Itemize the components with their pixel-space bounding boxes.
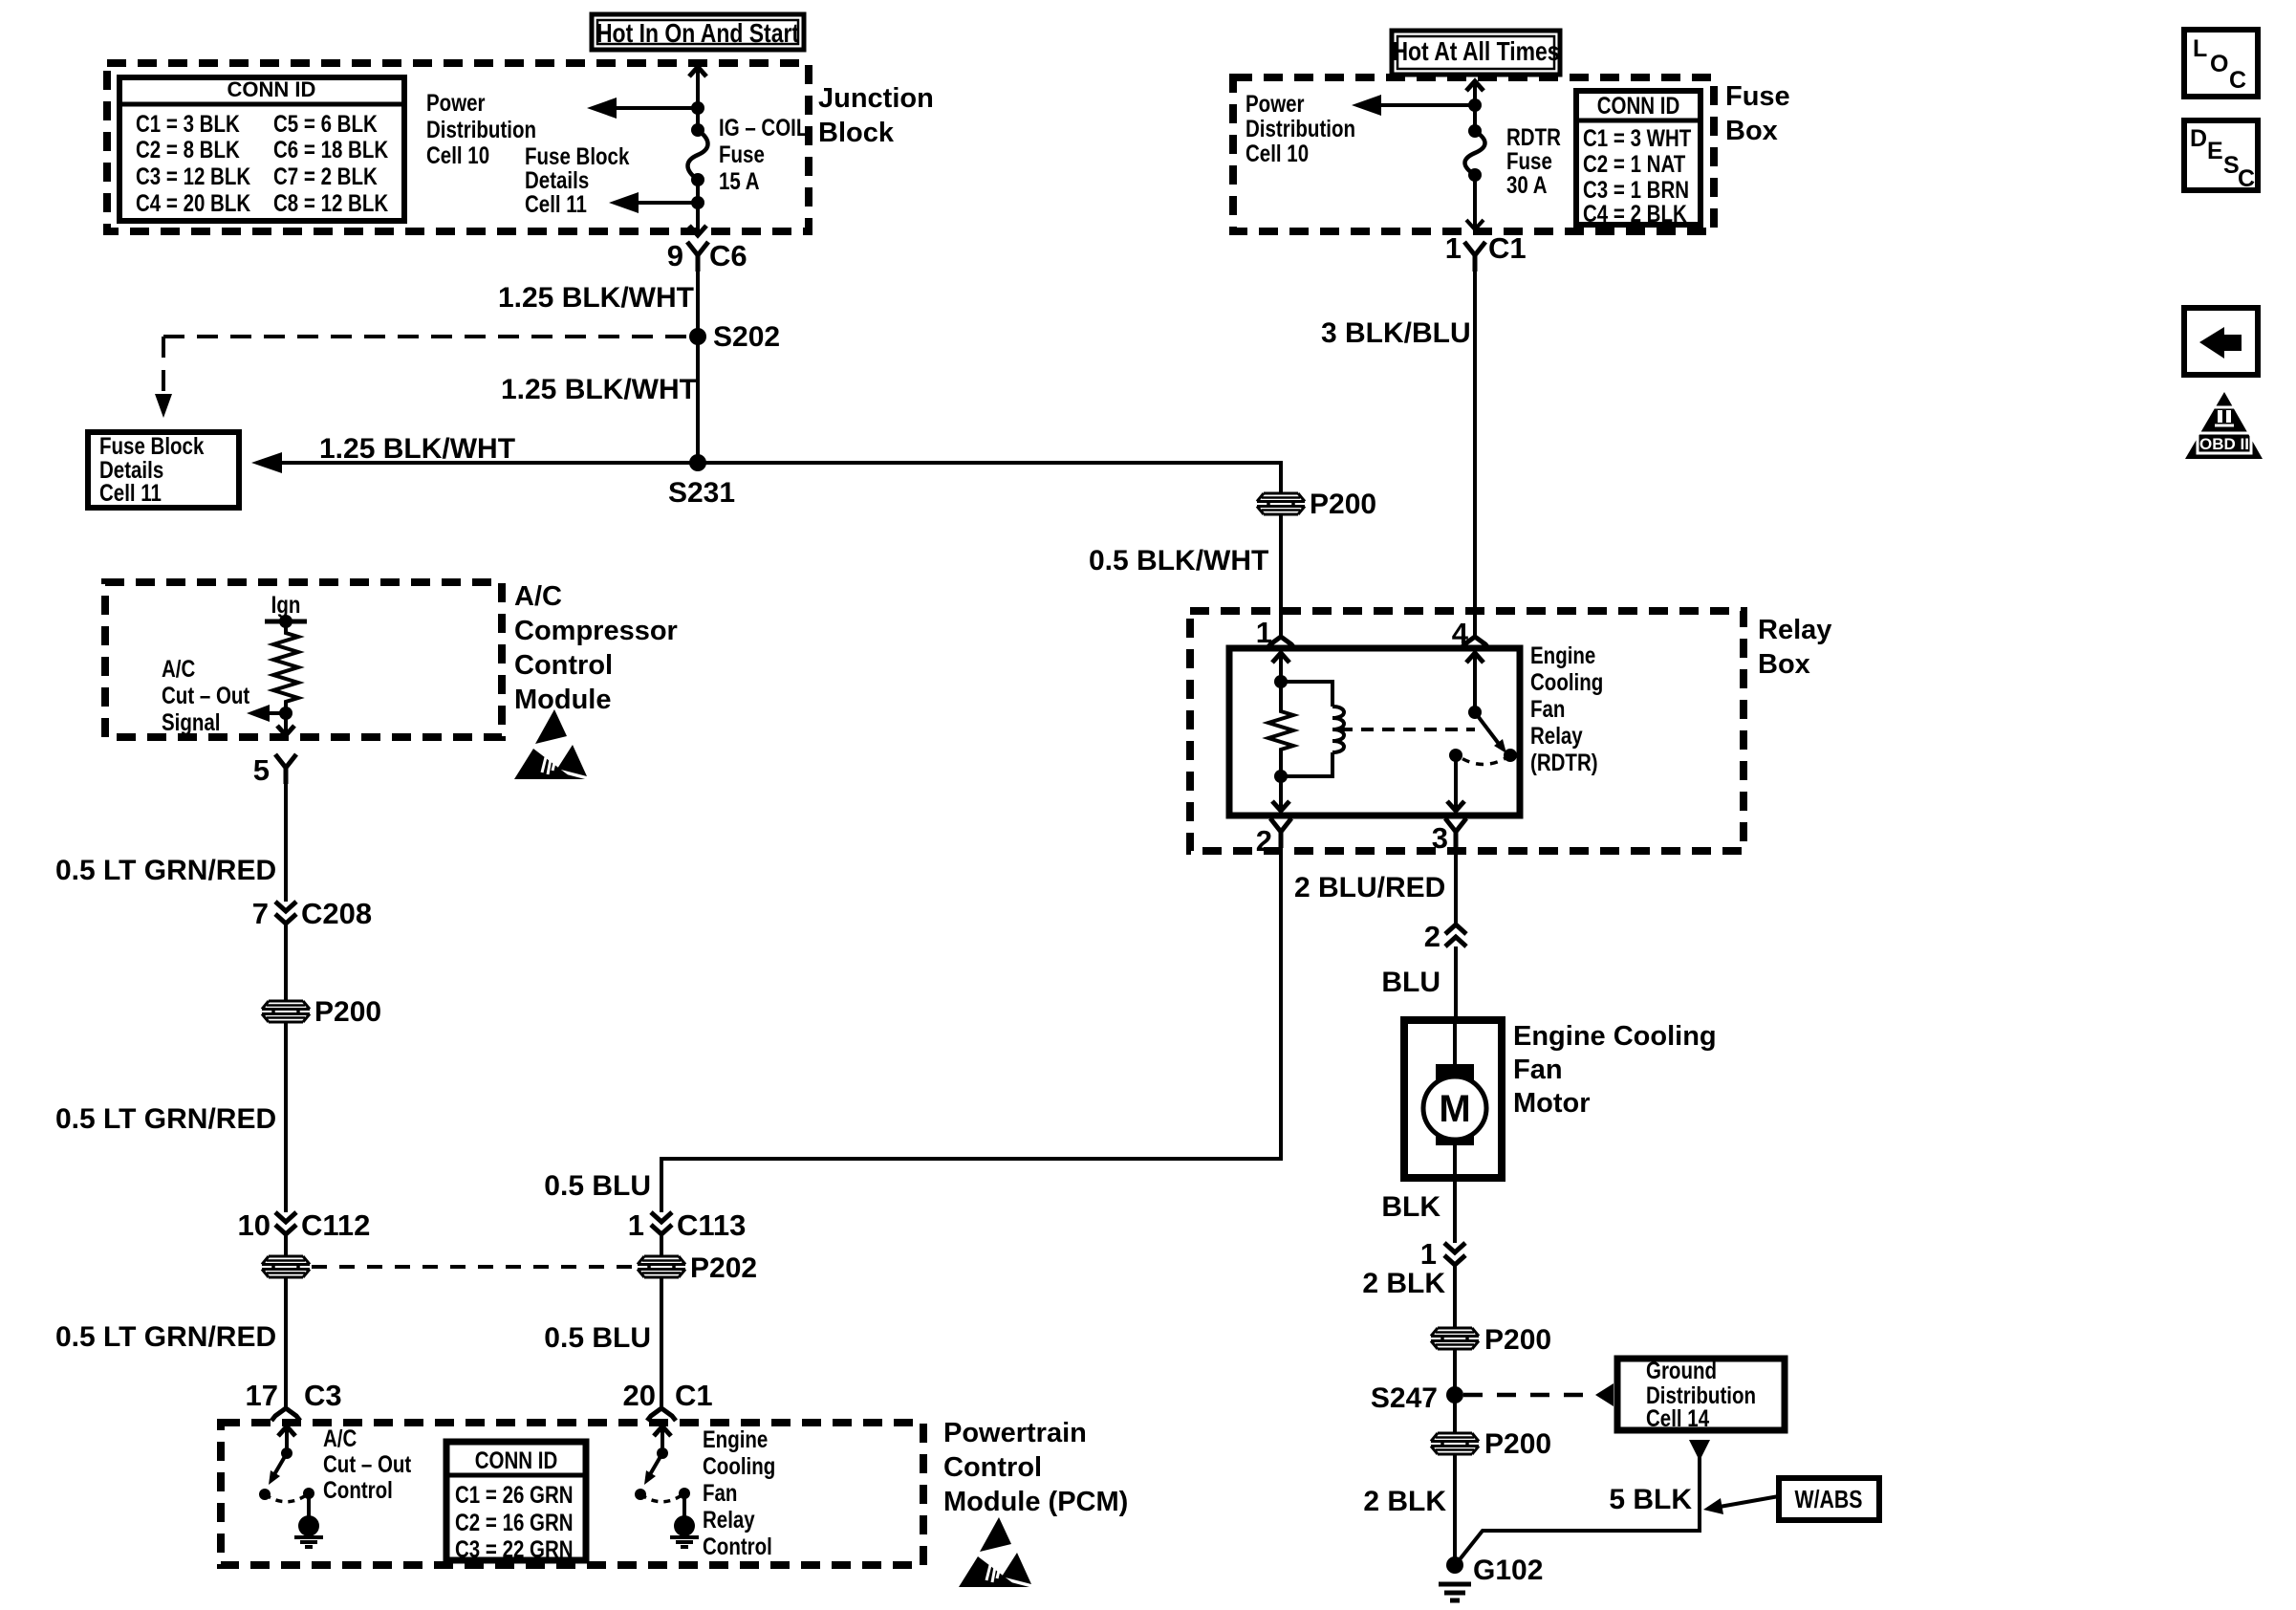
wire motor to ground chain <box>1453 1178 1457 1327</box>
svg-text:2: 2 <box>1424 920 1440 953</box>
svg-text:C2 = 8 BLK: C2 = 8 BLK <box>136 136 240 163</box>
svg-text:0.5 LT GRN/RED: 0.5 LT GRN/RED <box>55 1103 276 1135</box>
svg-text:10: 10 <box>238 1208 271 1242</box>
powertrain control module dashed box <box>221 1423 923 1565</box>
svg-text:Fan: Fan <box>1513 1055 1563 1085</box>
svg-text:Cell 10: Cell 10 <box>1245 140 1309 166</box>
relay pin 4 internal arrow <box>1466 653 1484 719</box>
wire S231 to P200 branch (arrow to fuse block details) <box>251 452 1281 493</box>
switch a/c cut-out control <box>259 1426 323 1547</box>
wire S247 to P200 <box>1453 1395 1457 1433</box>
wire P200 to S247 <box>1453 1349 1457 1395</box>
svg-text:30 A: 30 A <box>1506 171 1548 198</box>
svg-text:S247: S247 <box>1371 1382 1438 1414</box>
relay coil winding <box>1281 682 1344 776</box>
svg-text:Ground: Ground <box>1646 1357 1717 1383</box>
icon DESC box <box>2184 120 2258 192</box>
svg-text:Powertrain: Powertrain <box>943 1418 1087 1448</box>
connector C1 (PCM) <box>623 1379 713 1421</box>
connector P202 <box>638 1252 757 1284</box>
label Fuse Box <box>1725 81 1790 146</box>
svg-text:17: 17 <box>246 1379 278 1412</box>
svg-text:Relay: Relay <box>703 1506 755 1533</box>
svg-text:Control: Control <box>943 1452 1042 1483</box>
svg-text:Control: Control <box>703 1533 772 1559</box>
svg-text:Relay: Relay <box>1530 722 1583 749</box>
esd warning symbol (PCM) <box>959 1517 1031 1587</box>
wire power distribution branch arrow (fuse box) <box>1352 95 1475 116</box>
wire junction block output (down arrow) <box>689 180 706 235</box>
svg-text:15 A: 15 A <box>719 167 760 194</box>
connector P200 (motor ground upper) <box>1431 1324 1551 1356</box>
svg-text:Fuse: Fuse <box>719 141 765 167</box>
svg-text:Cooling: Cooling <box>1530 668 1603 695</box>
svg-text:C4 = 20 BLK: C4 = 20 BLK <box>136 189 251 216</box>
svg-text:C7 = 2 BLK: C7 = 2 BLK <box>273 163 378 189</box>
ground G102 <box>1439 1555 1543 1600</box>
svg-text:Engine: Engine <box>703 1425 768 1452</box>
relay pin 3 internal arrow <box>1447 749 1464 811</box>
wire 3 BLK/BLU <box>1473 272 1477 636</box>
svg-text:0.5 BLK/WHT: 0.5 BLK/WHT <box>1089 545 1268 577</box>
svg-text:Box: Box <box>1725 116 1778 146</box>
svg-text:Cell 11: Cell 11 <box>525 190 587 217</box>
svg-text:Cooling: Cooling <box>703 1452 775 1479</box>
svg-text:5: 5 <box>253 753 270 787</box>
label Hot In On And Start <box>592 14 804 50</box>
svg-text:C1: C1 <box>1488 231 1527 265</box>
svg-text:C208: C208 <box>301 897 372 930</box>
svg-text:S231: S231 <box>668 477 735 509</box>
svg-text:Hot At All Times: Hot At All Times <box>1392 37 1559 67</box>
svg-text:S202: S202 <box>713 321 780 353</box>
wire dashed C112 to P202 <box>312 1265 636 1269</box>
connector relay pin 4 <box>1452 617 1489 650</box>
node junction (fuse box branch) <box>1468 98 1482 112</box>
svg-text:Cell 10: Cell 10 <box>426 141 489 168</box>
svg-text:Fan: Fan <box>703 1479 737 1506</box>
svg-text:Cell 14: Cell 14 <box>1646 1404 1709 1431</box>
svg-text:Module (PCM): Module (PCM) <box>943 1487 1128 1517</box>
wire P200 to G102 <box>1453 1454 1457 1565</box>
svg-text:C6 = 18 BLK: C6 = 18 BLK <box>273 136 389 163</box>
svg-text:Power: Power <box>426 89 486 116</box>
svg-text:20: 20 <box>623 1379 656 1412</box>
node S202 <box>689 321 780 353</box>
svg-text:CONN ID: CONN ID <box>475 1447 558 1473</box>
svg-text:Distribution: Distribution <box>426 116 536 142</box>
svg-text:3: 3 <box>1432 821 1448 855</box>
svg-text:0.5 LT GRN/RED: 0.5 LT GRN/RED <box>55 855 276 886</box>
svg-text:1.25 BLK/WHT: 1.25 BLK/WHT <box>501 374 697 405</box>
svg-text:D: D <box>2190 125 2207 152</box>
svg-text:A/C: A/C <box>162 655 195 682</box>
svg-text:P202: P202 <box>690 1252 757 1284</box>
svg-text:Cut – Out: Cut – Out <box>162 682 250 708</box>
svg-text:C1 = 3 WHT: C1 = 3 WHT <box>1583 124 1691 151</box>
svg-text:C6: C6 <box>709 239 747 272</box>
svg-text:IG – COIL: IG – COIL <box>719 114 808 141</box>
fuse IG-COIL 15 A <box>688 123 708 186</box>
label 9 C6 <box>667 239 747 272</box>
wire junction block feed (up arrow) <box>689 67 706 108</box>
connector C1 (Y, fuse box) <box>1464 242 1485 272</box>
wire P200 to C112 <box>284 1022 288 1256</box>
svg-text:Relay: Relay <box>1758 615 1831 645</box>
wire C6 to S202 <box>696 272 700 337</box>
svg-text:BLU: BLU <box>1381 967 1440 998</box>
connector C6 (Y) <box>687 242 708 272</box>
connector P200 (upper) <box>1257 489 1376 520</box>
svg-text:2 BLU/RED: 2 BLU/RED <box>1294 872 1445 903</box>
svg-text:1.25 BLK/WHT: 1.25 BLK/WHT <box>319 433 515 465</box>
connector P200 (a/c chain) <box>262 996 381 1028</box>
svg-text:3 BLK/BLU: 3 BLK/BLU <box>1321 317 1471 349</box>
svg-text:Module: Module <box>514 685 612 715</box>
svg-text:C2 = 16 GRN: C2 = 16 GRN <box>455 1509 574 1535</box>
wire W/ABS arrow <box>1703 1496 1779 1514</box>
svg-text:A/C: A/C <box>323 1425 357 1451</box>
svg-text:P200: P200 <box>1484 1428 1551 1460</box>
node junction at details branch <box>691 196 704 209</box>
svg-text:C113: C113 <box>677 1208 746 1242</box>
conn id table (fuse box) <box>1576 91 1700 227</box>
svg-text:CONN ID: CONN ID <box>1597 92 1680 119</box>
wire S202 to S231 <box>696 337 700 463</box>
svg-text:9: 9 <box>667 239 683 272</box>
wire dashed crossover to fuse block details <box>155 337 687 418</box>
connector P200 (motor ground lower) <box>1431 1428 1551 1460</box>
connector 5 (Y, a/c module) <box>253 753 296 787</box>
junction block dashed box <box>107 63 809 231</box>
node Ign bar <box>265 615 307 628</box>
svg-text:P200: P200 <box>1484 1324 1551 1356</box>
relay actuate dashed link <box>1340 728 1475 731</box>
svg-text:(RDTR): (RDTR) <box>1530 749 1598 775</box>
svg-text:Box: Box <box>1758 649 1810 680</box>
svg-text:Fuse: Fuse <box>1725 81 1790 112</box>
svg-text:Control: Control <box>323 1476 393 1503</box>
svg-text:Hot In On And Start: Hot In On And Start <box>596 19 799 49</box>
box Ground Distribution Cell 14 <box>1617 1357 1785 1431</box>
svg-text:Ign: Ign <box>271 591 301 618</box>
icon OBD II triangle <box>2185 392 2263 459</box>
wire C112 to C3 <box>284 1277 288 1407</box>
wire P200 to relay pin 1 <box>1279 514 1283 636</box>
connector C208 <box>252 897 372 930</box>
svg-text:CONN ID: CONN ID <box>227 77 316 101</box>
svg-text:Cut – Out: Cut – Out <box>323 1450 412 1477</box>
connector relay pin 2 <box>1256 818 1291 858</box>
svg-text:C1: C1 <box>675 1379 713 1412</box>
switch engine cooling fan relay control <box>635 1426 699 1547</box>
svg-text:2 BLK: 2 BLK <box>1363 1486 1446 1517</box>
wire power distribution branch arrow <box>587 98 698 119</box>
relay pin 1 internal arrow <box>1272 653 1289 688</box>
box Fuse Block Details Cell 11 <box>88 432 239 508</box>
box W/ABS <box>1779 1478 1879 1520</box>
svg-text:2: 2 <box>1256 824 1272 858</box>
svg-text:C1 = 26 GRN: C1 = 26 GRN <box>455 1481 574 1508</box>
svg-text:C: C <box>2229 67 2246 94</box>
svg-text:OBD II: OBD II <box>2199 435 2249 453</box>
svg-text:1.25 BLK/WHT: 1.25 BLK/WHT <box>498 282 694 314</box>
svg-text:1: 1 <box>628 1208 644 1242</box>
svg-text:Power: Power <box>1245 90 1305 117</box>
wire a/c cut-out signal arrow <box>247 705 292 722</box>
svg-text:Distribution: Distribution <box>1245 115 1355 141</box>
label A/C Cut-Out Signal <box>162 655 250 735</box>
svg-text:P200: P200 <box>1310 489 1376 520</box>
svg-text:C2 = 1 NAT: C2 = 1 NAT <box>1583 150 1685 177</box>
label IG-COIL Fuse 15 A <box>719 114 808 194</box>
wire relay pin 2 to C113 (0.5 BLU run) <box>661 848 1281 1256</box>
svg-text:Engine: Engine <box>1530 642 1595 668</box>
svg-text:P200: P200 <box>314 996 381 1028</box>
svg-text:Motor: Motor <box>1513 1088 1591 1119</box>
svg-text:5 BLK: 5 BLK <box>1609 1484 1692 1515</box>
relay box dashed box <box>1190 611 1744 851</box>
connector 2 (fan motor harness) <box>1424 920 1466 953</box>
label Power Distribution Cell 10 (junction block) <box>426 89 536 168</box>
svg-text:Cell 11: Cell 11 <box>99 479 162 506</box>
svg-text:7: 7 <box>252 897 269 930</box>
wire dashed to ground distribution <box>1463 1383 1614 1406</box>
svg-text:1: 1 <box>1445 231 1462 265</box>
label RDTR Fuse 30 A <box>1506 123 1561 198</box>
wire into fuse <box>696 108 700 130</box>
svg-text:C: C <box>2238 165 2255 192</box>
svg-text:0.5 BLU: 0.5 BLU <box>544 1322 651 1354</box>
a/c compressor control module dashed box <box>105 582 502 737</box>
svg-text:G102: G102 <box>1473 1555 1543 1586</box>
svg-text:Signal: Signal <box>162 708 221 735</box>
label Hot At All Times <box>1392 31 1560 75</box>
connector C113 <box>628 1208 747 1242</box>
svg-text:E: E <box>2207 138 2223 164</box>
connector relay pin 3 <box>1432 818 1466 855</box>
conn id table (PCM) <box>446 1442 586 1562</box>
wire a/c module output (down arrow) <box>277 713 294 735</box>
label Engine Cooling Fan Motor <box>1513 1021 1717 1119</box>
label Engine Cooling Fan Relay Control <box>703 1425 775 1559</box>
svg-text:BLK: BLK <box>1381 1191 1440 1223</box>
svg-text:2 BLK: 2 BLK <box>1362 1268 1445 1299</box>
node S247 <box>1371 1382 1463 1414</box>
svg-text:1: 1 <box>1256 616 1272 649</box>
svg-text:W/ABS: W/ABS <box>1794 1486 1862 1514</box>
connector C112 <box>238 1208 371 1242</box>
label Power Distribution Cell 10 (fuse box) <box>1245 90 1355 166</box>
label Fuse Block Details Cell 11 (junction block) <box>525 142 630 217</box>
icon back-arrow box <box>2184 308 2258 375</box>
wire P202 to C1 <box>660 1277 663 1407</box>
svg-text:Junction: Junction <box>818 83 934 114</box>
svg-text:C8 = 12 BLK: C8 = 12 BLK <box>273 189 389 216</box>
svg-text:L: L <box>2193 35 2207 62</box>
svg-text:O: O <box>2210 51 2228 77</box>
label A/C Compressor Control Module <box>514 581 678 715</box>
label 1 C1 <box>1445 231 1527 265</box>
connector C112 pass-through <box>262 1256 310 1277</box>
svg-text:Block: Block <box>818 118 895 148</box>
svg-text:C3: C3 <box>304 1379 342 1412</box>
svg-text:C4 = 2 BLK: C4 = 2 BLK <box>1583 200 1687 227</box>
relay RDTR body <box>1229 648 1520 816</box>
motor M1 engine cooling fan <box>1404 1020 1502 1178</box>
node junction at power branch <box>691 101 704 115</box>
svg-text:1: 1 <box>1420 1237 1437 1271</box>
node S231 <box>668 454 735 509</box>
relay pin 2 internal arrow <box>1272 776 1289 811</box>
fuse box dashed box <box>1233 77 1714 231</box>
fuse RDTR 30 A <box>1465 124 1485 182</box>
icon LOC box <box>2184 30 2258 97</box>
connector 1 (fan motor harness) <box>1420 1237 1465 1271</box>
connector relay pin 1 <box>1256 616 1295 649</box>
svg-text:Engine Cooling: Engine Cooling <box>1513 1021 1717 1052</box>
svg-text:0.5 LT GRN/RED: 0.5 LT GRN/RED <box>55 1321 276 1353</box>
svg-text:C112: C112 <box>301 1208 370 1242</box>
svg-text:Compressor: Compressor <box>514 616 678 646</box>
wire relay pin 3 to motor <box>1454 848 1458 1020</box>
svg-text:Control: Control <box>514 650 613 681</box>
label Powertrain Control Module (PCM) <box>943 1418 1128 1517</box>
svg-text:C3 = 22 GRN: C3 = 22 GRN <box>455 1535 574 1562</box>
wire fuse box feed (up arrow) <box>1466 81 1484 131</box>
svg-text:C1 = 3 BLK: C1 = 3 BLK <box>136 110 240 137</box>
relay switch dashed throw <box>1457 755 1510 765</box>
relay coil resistor <box>1268 682 1293 783</box>
wire pin 5 to C208 <box>284 784 288 1001</box>
svg-text:C3 = 12 BLK: C3 = 12 BLK <box>136 163 251 189</box>
label A/C Cut-Out Control <box>323 1425 412 1503</box>
label Relay Box <box>1758 615 1831 680</box>
label Engine Cooling Fan Relay (RDTR) <box>1530 642 1603 775</box>
wire fuse block details branch arrow <box>609 192 698 213</box>
svg-text:A/C: A/C <box>514 581 562 612</box>
svg-text:0.5 BLU: 0.5 BLU <box>544 1170 651 1202</box>
conn id table (junction block) <box>119 77 404 221</box>
wire ground distribution drop (5 BLK) <box>1457 1440 1710 1563</box>
svg-text:M: M <box>1439 1088 1470 1130</box>
relay switch arm <box>1475 712 1517 762</box>
connector C3 (PCM) <box>246 1379 342 1421</box>
svg-text:C5 = 6 BLK: C5 = 6 BLK <box>273 110 378 137</box>
svg-text:Fan: Fan <box>1530 695 1565 722</box>
esd warning symbol (a/c module) <box>514 709 587 779</box>
label Junction Block <box>818 83 934 148</box>
resistor (a/c module) <box>273 621 298 713</box>
wire fuse box output (down arrow) <box>1466 175 1484 229</box>
